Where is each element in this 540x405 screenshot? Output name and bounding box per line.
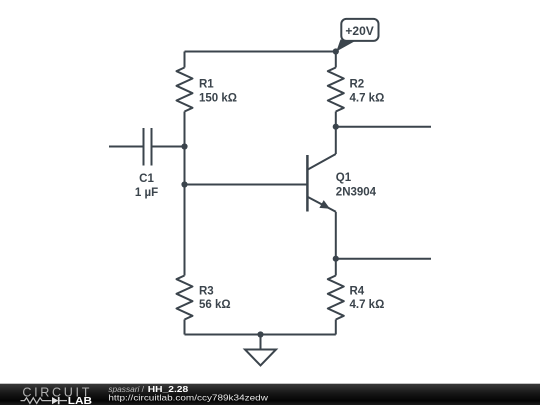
svg-text:1 µF: 1 µF <box>135 187 158 199</box>
svg-text:http://circuitlab.com/ccy789k3: http://circuitlab.com/ccy789k34zedw <box>108 393 269 403</box>
svg-text:150 kΩ: 150 kΩ <box>199 92 237 104</box>
svg-text:C1: C1 <box>139 173 154 185</box>
wire R4 bottom lead <box>335 320 337 335</box>
wire emitter lead <box>335 212 337 259</box>
power flag +20V <box>336 19 378 52</box>
svg-text:Q1: Q1 <box>336 172 352 184</box>
wire R1 bottom lead to C1 node <box>184 112 186 147</box>
svg-text:4.7 kΩ: 4.7 kΩ <box>350 92 385 104</box>
resistor R2 <box>328 68 385 112</box>
wire R3 bottom lead <box>184 320 186 335</box>
wire R4 top lead <box>335 259 337 276</box>
logo CircuitLab wordmark <box>21 385 93 405</box>
svg-text:R2: R2 <box>350 79 365 91</box>
wire base <box>185 184 308 186</box>
node ground junction <box>257 331 263 337</box>
resistor R1 <box>177 68 238 112</box>
svg-text:56 kΩ: 56 kΩ <box>199 299 231 311</box>
resistor R3 <box>177 276 231 320</box>
ground <box>245 335 276 366</box>
node base junction <box>181 181 187 187</box>
svg-text:4.7 kΩ: 4.7 kΩ <box>350 299 385 311</box>
wire left rail base node to R3 <box>184 185 186 276</box>
resistor R4 <box>328 276 385 320</box>
wire bottom rail <box>185 334 336 336</box>
node C1 junction <box>181 143 187 149</box>
wire top rail <box>185 51 336 53</box>
wire R2 bottom lead <box>335 112 337 127</box>
wire output collector <box>336 126 431 128</box>
capacitor C1 <box>109 128 185 199</box>
node top supply junction <box>333 48 339 54</box>
wire collector lead <box>335 127 337 154</box>
node collector junction <box>333 124 339 130</box>
svg-text:LAB: LAB <box>68 396 92 405</box>
transistor Q1 <box>307 154 376 212</box>
wire left rail C1 to base node <box>184 147 186 185</box>
svg-text:R4: R4 <box>350 285 365 297</box>
wire R2 top lead <box>335 52 337 68</box>
svg-text:R3: R3 <box>199 285 214 297</box>
wire output emitter <box>336 258 431 260</box>
node emitter junction <box>333 256 339 262</box>
svg-text:2N3904: 2N3904 <box>336 187 377 199</box>
svg-text:R1: R1 <box>199 79 214 91</box>
svg-text:+20V: +20V <box>345 24 373 38</box>
wire R1 top lead <box>184 52 186 68</box>
